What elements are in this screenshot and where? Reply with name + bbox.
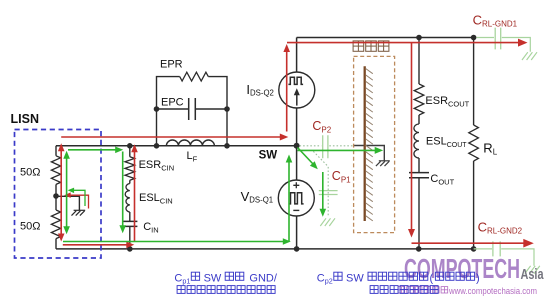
wire: CIN branch [129, 146, 131, 249]
svg-text:EPC: EPC [161, 97, 184, 109]
node: COUT top junction [416, 35, 422, 41]
caption Cp1 line 2 [177, 286, 185, 294]
svg-text:): ) [476, 272, 480, 284]
wire: switch-node vertical (Q2 top) [296, 38, 298, 73]
green loop: LISN internal vertical with arrows [66, 156, 68, 228]
wire: SW to chassis ground beside heatsink [354, 146, 384, 161]
green loop: vertical up to SW [288, 161, 290, 242]
node: RL bottom junction [471, 246, 477, 252]
svg-text:LISN: LISN [11, 112, 39, 126]
capacitor C_P2 plates [323, 135, 328, 158]
wire: LISN ground stub [56, 196, 79, 210]
wire: top rail from Q2 drain to RL branch [297, 37, 474, 39]
caption Cp1 line 1 [174, 272, 277, 285]
green loop: SW diagonal to CP1 [298, 148, 314, 165]
wire: between Q2 and Q1 [296, 108, 298, 180]
red loop: vertical up at SW [286, 49, 288, 132]
green loop: top horizontal toward CIN [68, 149, 116, 151]
wire: C_RL-GND1 pale green link [476, 38, 530, 52]
resistor ESR_COUT [414, 84, 424, 115]
node: EPR loop left bottom [154, 143, 160, 149]
wire: below Q1 to bottom rail [296, 216, 298, 249]
node SW [294, 143, 300, 149]
svg-text:SW: SW [259, 150, 278, 162]
wire: EPC row [157, 108, 228, 110]
svg-text:50Ω: 50Ω [20, 221, 40, 233]
resistor 50ohm upper [51, 156, 60, 185]
svg-text:SW: SW [204, 272, 222, 284]
green loop: CP1 vertical down [322, 172, 324, 211]
wire: dotted SW-to-heatsink parasitic path [300, 145, 354, 147]
inductor L_F bumps [166, 140, 214, 146]
capacitor C_P1 plates [319, 191, 338, 195]
red loop: vertical down right of heatsink [411, 43, 413, 230]
red loop: CIN branch vertical with up arrow [134, 150, 136, 241]
heatsink dashed enclosure [354, 56, 395, 232]
svg-text:GND/: GND/ [249, 272, 277, 284]
svg-text:Asia: Asia [521, 267, 544, 283]
resistor EPR [180, 72, 209, 81]
resistor ESR_CIN [125, 157, 135, 181]
wire: main horizontal rail from LISN to SW node [56, 145, 297, 147]
node: LISN midpoint junction [53, 193, 59, 199]
Q1 pulse waveform glyph [289, 193, 304, 204]
Q1 plus sign [293, 182, 299, 188]
caption Cp2 line 1 [317, 272, 365, 285]
Q1 minus sign [293, 209, 299, 211]
Q2 pulse waveform glyph [288, 77, 303, 84]
wire: EPR/EPC loop frame [157, 77, 228, 146]
ground: C_P1 pale green chassis ground [320, 218, 335, 226]
svg-text:www.compotechasia.com: www.compotechasia.com [448, 286, 537, 296]
wire: RL branch [473, 38, 475, 249]
capacitor C_RL-GND2 plates [493, 241, 500, 256]
LISN box (dashed blue) [15, 130, 102, 259]
svg-text:50Ω: 50Ω [20, 167, 40, 179]
resistor 50ohm lower [51, 210, 60, 239]
LISN source branch vertical wire [55, 146, 57, 249]
node: EPR loop right bottom [224, 143, 230, 149]
transistor Q2 (IDS-Q2 current source circle) [279, 72, 315, 108]
heatsink bar [364, 66, 366, 221]
green loop: CIN vertical down [122, 152, 124, 227]
svg-text:SW: SW [346, 272, 364, 284]
node: EPC left [154, 106, 160, 112]
wire: bottom rail [56, 248, 474, 250]
ground: C_RL-GND1 chassis ground [522, 52, 537, 60]
node: EPC right [224, 106, 230, 112]
green loop: SW to heatsink ground horizontal [298, 149, 376, 151]
red loop: LISN internal vertical with arrows [60, 149, 62, 234]
Q2 current arrow [296, 94, 298, 106]
red loop: bottom-right horizontal [412, 242, 525, 244]
node: Q1 bottom junction [294, 246, 300, 252]
ground: LISN chassis ground [72, 210, 86, 215]
watermark slogan and url [398, 287, 405, 293]
capacitor C_IN plates [123, 221, 138, 226]
resistor R_L [469, 125, 479, 161]
red loop: top horizontal [287, 42, 519, 44]
green loop: bottom horizontal [63, 241, 284, 243]
caption Cp2 line 2 [370, 286, 378, 294]
voltage source Q1 (VDS-Q1 circle) [278, 180, 314, 216]
node: RL top junction [471, 35, 477, 41]
label heatsink (Chinese) [353, 41, 364, 51]
capacitor EPC plates [189, 98, 196, 120]
capacitor C_OUT plates [409, 173, 429, 178]
wire: C_RL-GND2 pale green link [474, 249, 534, 266]
svg-text:COMPOTECH: COMPOTECH [404, 253, 520, 284]
inductor ESL_CIN [125, 184, 130, 213]
ground: C_RL-GND2 chassis ground [525, 266, 540, 274]
inductor ESL_COUT [414, 124, 419, 158]
ground: chassis ground at heatsink [376, 161, 390, 166]
wire: COUT branch [418, 38, 420, 249]
red loop: horizontal along main rail [61, 136, 281, 138]
svg-text:(: ( [430, 272, 434, 284]
red loop: small arrow at LISN ground node [67, 195, 89, 208]
svg-text:EPR: EPR [160, 59, 183, 71]
node: CIN top junction [127, 143, 133, 149]
node: COUT bottom junction [416, 246, 422, 252]
capacitor C_RL-GND1 plates [495, 28, 501, 50]
node: CIN bottom junction [127, 246, 133, 252]
red loop: bottom-left horizontal with right arrow [63, 244, 128, 246]
heatsink fins hatching [366, 69, 373, 221]
green loop: small arrow at LISN ground node [70, 190, 85, 206]
wire: dotted SW-to-CP1 parasitic path [313, 151, 328, 215]
